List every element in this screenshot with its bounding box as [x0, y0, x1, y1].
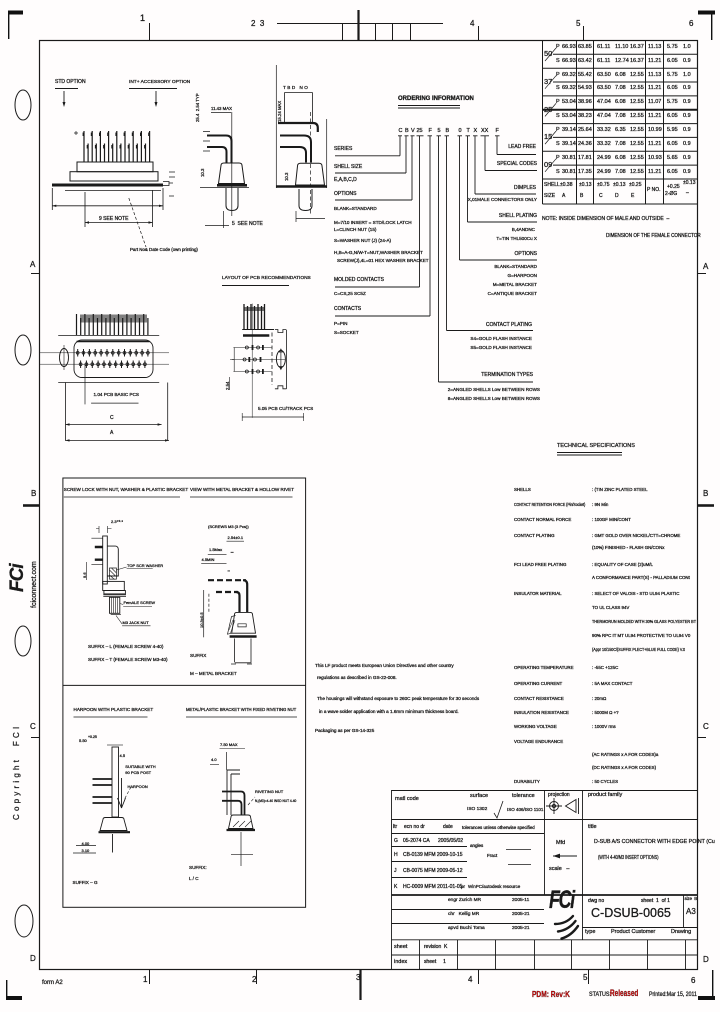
ordering information texts [398, 96, 474, 102]
technical specifications underline [557, 453, 622, 456]
fig1 screw lock with nut [87, 526, 153, 626]
pcb layout right (right-angle footprint) [230, 304, 304, 421]
connector view labels [55, 80, 86, 85]
corner mark top-left [8, 11, 23, 40]
right-angle view A [200, 112, 249, 228]
tolerance row [544, 183, 560, 188]
fig1 texts [111, 520, 123, 524]
copyright vertical [13, 724, 21, 820]
ordering information tree lines [335, 106, 537, 383]
std option arrow [55, 89, 78, 108]
bottom zone ticks [150, 969, 589, 984]
bracket options box [63, 478, 306, 907]
right zone ticks [698, 274, 706, 738]
title block lines [392, 790, 699, 970]
top zone ticks [150, 23, 584, 40]
fig4 riveting nut bracket [210, 749, 255, 867]
title block texts [395, 797, 419, 803]
surface check symbol [494, 801, 503, 818]
note under table [542, 217, 669, 222]
fig3 texts [79, 739, 87, 743]
corner mark bottom-right [698, 970, 715, 1000]
pcb layout texts [94, 393, 139, 398]
fig3 harpoon bracket [73, 745, 131, 853]
technical specifications heading [557, 444, 635, 450]
margin texts [140, 14, 145, 23]
accessory option arrow [129, 89, 177, 108]
left labels [334, 147, 352, 152]
punch hole ellipses [15, 90, 31, 120]
fci logo swoosh [555, 916, 578, 939]
connector main side view (pins up) [52, 131, 175, 247]
bracket box titles [64, 488, 188, 493]
right labels [508, 145, 536, 150]
european directive paragraph [315, 664, 454, 669]
dimension table text [544, 50, 552, 58]
big FCI logo text [549, 888, 574, 913]
mfd arrow [553, 854, 577, 859]
layout of pcb title underline [222, 285, 289, 287]
fig2 texts [208, 525, 249, 529]
projection symbol [546, 798, 579, 814]
red status footer [532, 990, 570, 999]
corner mark bottom-left [6, 980, 22, 1000]
pcb layout left (through holes pattern) [40, 314, 169, 442]
top fold strip [277, 24, 443, 41]
fig4 texts [220, 743, 238, 747]
right-angle view B [276, 65, 327, 222]
fci logo left margin (vertical) [8, 564, 27, 592]
dimension table grid [543, 41, 699, 205]
corner mark top-right [698, 11, 715, 41]
fig2 metal bracket hollow rivet [201, 541, 256, 664]
left zone ticks [31, 274, 39, 738]
